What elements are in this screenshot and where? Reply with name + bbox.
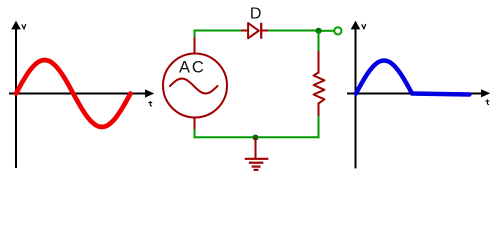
input axis label v <box>22 25 26 29</box>
node: ground junction <box>253 135 259 141</box>
AC source sine symbol <box>170 79 218 94</box>
diode D triangle <box>248 23 259 38</box>
input sine waveform <box>16 60 131 127</box>
output axis label v <box>362 24 366 28</box>
ground symbol <box>245 159 268 170</box>
wire: right vertical upper <box>318 31 320 53</box>
svg-text:D: D <box>250 6 262 23</box>
node: top junction <box>316 28 322 34</box>
wire: top horizontal right of diode <box>268 30 320 32</box>
output axis label t <box>486 100 489 105</box>
diode D cathode bar <box>260 23 262 39</box>
output graph horizontal axis (t) <box>347 89 490 97</box>
resistor R bottom lead <box>318 103 320 118</box>
wire: junction to output terminal <box>319 30 334 32</box>
output graph vertical axis (v) <box>351 21 361 169</box>
output rectified waveform <box>356 61 469 95</box>
wire: left vertical (bottom segment) <box>194 129 196 138</box>
AC source bottom lead <box>194 117 196 130</box>
wire: right vertical lower <box>318 116 320 138</box>
diode D anode lead <box>241 30 249 32</box>
wire: left vertical (top segment) <box>194 30 196 39</box>
ground lead <box>255 137 257 158</box>
input graph vertical axis (v) <box>11 21 21 168</box>
input graph horizontal axis (t) <box>9 89 154 97</box>
wire: top horizontal left of diode <box>194 30 243 32</box>
resistor R top lead <box>318 51 320 74</box>
diode D cathode lead <box>262 30 270 32</box>
AC source top lead <box>194 37 196 54</box>
resistor R zigzag <box>314 73 325 104</box>
output terminal <box>334 27 341 34</box>
input axis label t <box>149 101 152 106</box>
wire: bottom horizontal <box>194 136 320 138</box>
svg-text:AC: AC <box>179 59 206 77</box>
AC source U1 circle <box>163 54 227 118</box>
